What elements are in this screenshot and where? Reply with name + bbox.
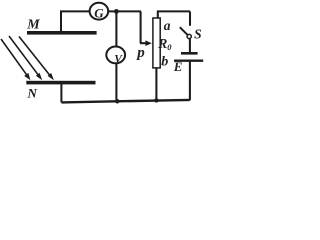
resistor R0 bottom stub: [155, 68, 157, 102]
wire drop from plate N: [60, 84, 62, 102]
light ray arrow 2: [9, 36, 39, 75]
wire riser from plate M: [60, 11, 62, 32]
battery E short plate: [181, 52, 198, 55]
resistor R0 top stub: [157, 11, 159, 18]
wire slider drop: [140, 11, 142, 43]
svg-text:0: 0: [167, 42, 172, 52]
resistor R0 body: [153, 18, 160, 68]
wire bottom run: [61, 100, 189, 103]
wire top left run: [60, 10, 141, 12]
svg-text:M: M: [26, 18, 40, 33]
wire voltmeter branch vertical: [115, 11, 117, 101]
plate M: [27, 31, 97, 35]
light ray arrow 1: [1, 39, 27, 75]
node junction dot top: [114, 9, 119, 14]
svg-text:a: a: [164, 18, 171, 33]
switch S blade: [180, 27, 188, 35]
wire switch drop: [189, 11, 191, 25]
wire switch to battery: [189, 39, 191, 53]
svg-text:E: E: [173, 59, 183, 74]
svg-text:G: G: [94, 5, 104, 20]
galvanometer G circle U1: [90, 3, 109, 20]
node junction dot resistor bottom: [154, 98, 158, 102]
svg-text:R: R: [157, 37, 167, 52]
slider arrow p: [140, 42, 146, 44]
svg-text:N: N: [27, 85, 38, 100]
wire top right run: [157, 10, 190, 12]
battery E long plate: [174, 60, 203, 62]
plate N: [26, 81, 95, 85]
switch S pivot: [187, 34, 191, 38]
svg-text:S: S: [194, 27, 202, 42]
node junction dot voltmeter bottom: [115, 99, 119, 103]
svg-text:V: V: [114, 54, 123, 66]
svg-text:p: p: [135, 45, 145, 61]
wire battery to bottom: [189, 62, 191, 101]
voltmeter V circle U2: [106, 47, 125, 64]
light ray arrow 3: [19, 37, 50, 76]
svg-text:b: b: [161, 55, 168, 70]
